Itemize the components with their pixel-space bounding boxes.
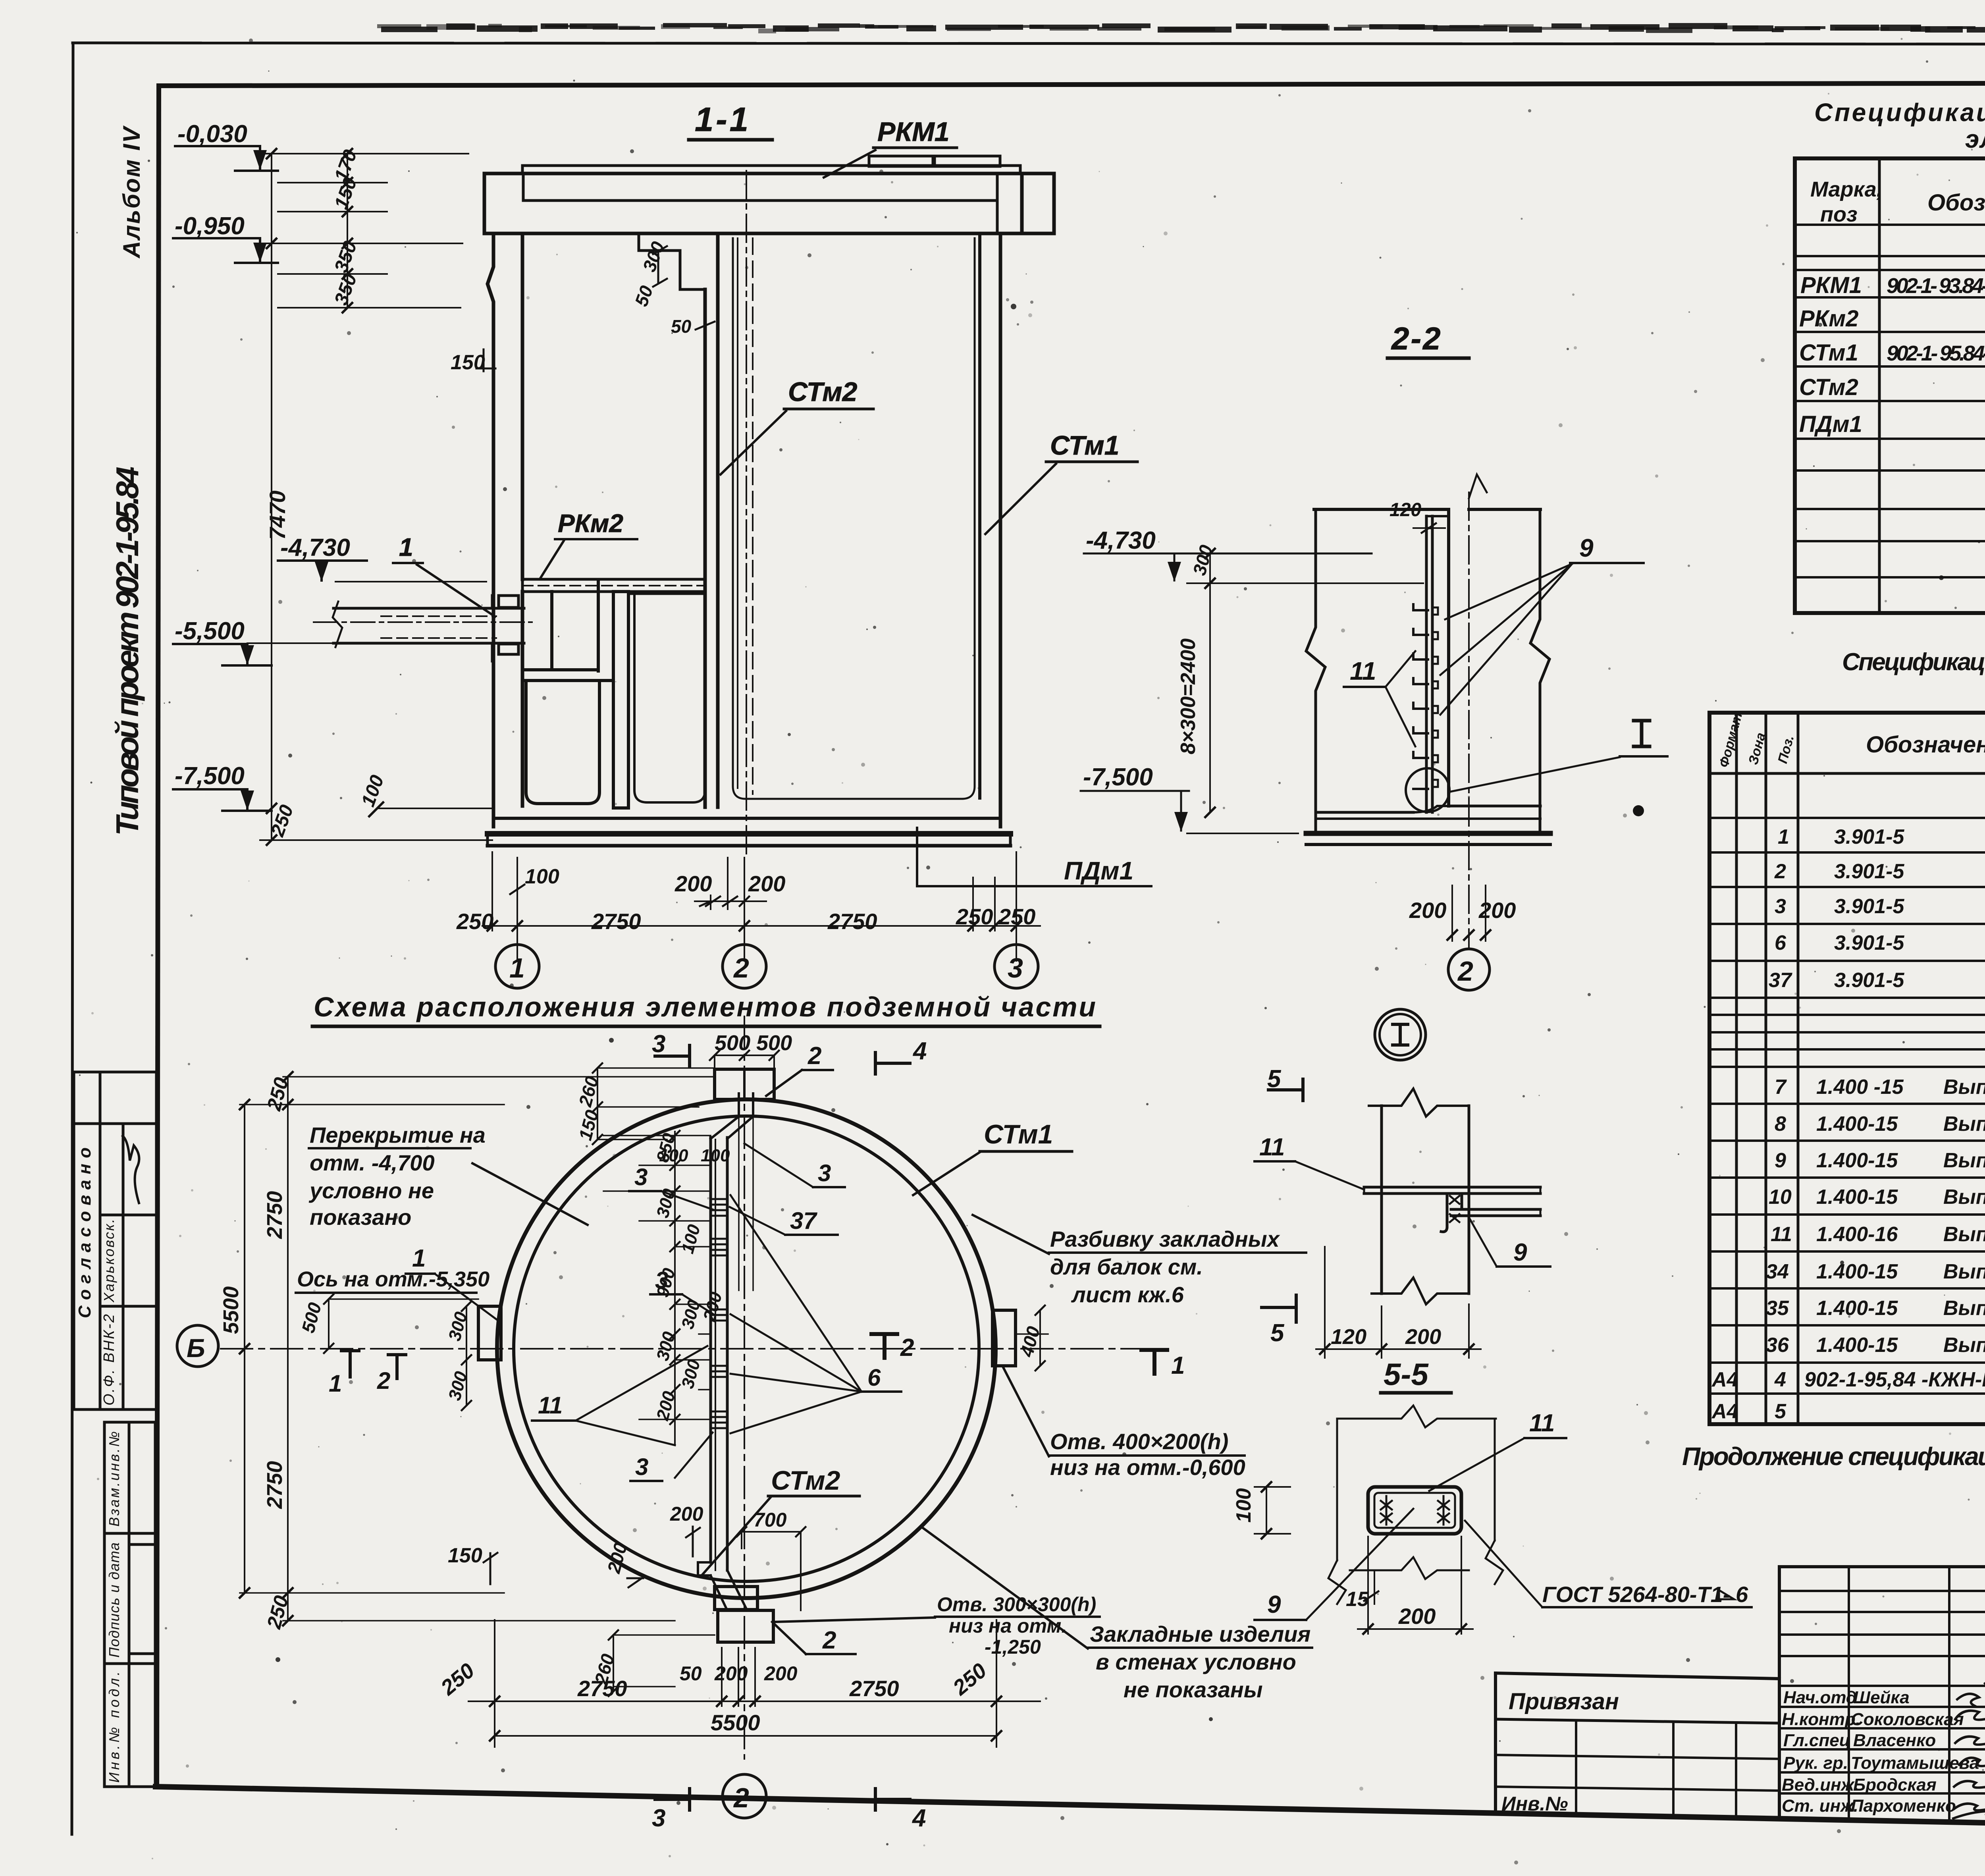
dims 120 200 (det I) bbox=[1324, 1247, 1326, 1358]
svg-text:для балок см.: для балок см. bbox=[1050, 1254, 1203, 1279]
pos label 2 (bottom tongue) bbox=[822, 1627, 836, 1654]
svg-text:200: 200 bbox=[748, 871, 785, 896]
spec1 row lines bbox=[1795, 225, 1985, 577]
pipe flange plates bbox=[499, 596, 518, 607]
upper chamber box verticals bbox=[550, 592, 553, 668]
svg-text:3: 3 bbox=[1775, 895, 1786, 918]
leader СТм1 bbox=[985, 464, 1056, 534]
ext verticals 5-5 bbox=[1336, 1419, 1338, 1560]
right tank inner left liner bbox=[733, 238, 962, 799]
svg-text:200: 200 bbox=[1398, 1604, 1436, 1629]
detail I top break line bbox=[1369, 1089, 1469, 1116]
sump box bbox=[526, 681, 599, 804]
axis bubble 1 bbox=[495, 945, 539, 988]
detail circle at rung bbox=[1406, 768, 1449, 812]
svg-text:Привязан: Привязан bbox=[1509, 1689, 1619, 1714]
svg-text:Закладные изделия: Закладные изделия bbox=[1090, 1621, 1310, 1647]
svg-text:Продолжение спецификации СТм1,: Продолжение спецификации СТм1, СТм2 см. … bbox=[1682, 1442, 1985, 1471]
label 9 (5-5) bbox=[1267, 1591, 1281, 1618]
svg-text:6: 6 bbox=[867, 1364, 881, 1391]
svg-text:Вып.1. 130-29: Вып.1. 130-29 bbox=[1943, 1112, 1985, 1136]
T1 section symbol bbox=[1141, 1350, 1167, 1374]
svg-text:Разбивку закладных: Разбивку закладных bbox=[1050, 1226, 1281, 1251]
dim 2750 right bbox=[827, 909, 877, 934]
chain extension verticals bbox=[491, 852, 493, 931]
svg-text:120: 120 bbox=[1389, 499, 1421, 521]
svg-text:условно не: условно не bbox=[308, 1178, 434, 1203]
svg-text:250: 250 bbox=[456, 909, 493, 934]
bottom section flag 3 bbox=[655, 1798, 690, 1801]
svg-text:1.400-15: 1.400-15 bbox=[1816, 1112, 1898, 1136]
svg-text:5: 5 bbox=[1267, 1065, 1282, 1093]
svg-text:Вып.1 . 120-53: Вып.1 . 120-53 bbox=[1943, 1297, 1985, 1320]
dim 150 lower left bbox=[448, 1544, 482, 1567]
svg-text:Схема расположения элементов: Схема расположения элементов подземной ч… bbox=[314, 991, 1096, 1022]
svg-text:2: 2 bbox=[822, 1627, 836, 1654]
rotated dim 170 bbox=[331, 147, 361, 184]
elevation -7,500 (2-2) bbox=[1083, 764, 1153, 791]
svg-text:Взам.инв.№: Взам.инв.№ bbox=[106, 1431, 122, 1527]
top beam right extension block bbox=[1022, 174, 1054, 233]
pos marker 37 bbox=[790, 1207, 817, 1234]
svg-text:2: 2 bbox=[1457, 956, 1473, 987]
svg-text:1: 1 bbox=[1171, 1352, 1185, 1379]
spec2 heading bbox=[1842, 648, 1985, 676]
label СТм2 (plan) bbox=[771, 1465, 840, 1496]
bottom slab 2-2 bbox=[1316, 811, 1413, 814]
svg-text:1.400-15: 1.400-15 bbox=[1816, 1297, 1898, 1320]
svg-text:Рук. гр.: Рук. гр. bbox=[1783, 1753, 1848, 1773]
leader ПДм1 bbox=[917, 828, 1060, 886]
svg-text:2750: 2750 bbox=[827, 909, 877, 934]
spec1 rows text bbox=[1799, 267, 1985, 437]
svg-text:показано: показано bbox=[310, 1205, 411, 1230]
svg-text:3: 3 bbox=[1008, 952, 1023, 983]
scanner edge streak bbox=[381, 23, 1985, 33]
inner frame top thick bbox=[159, 83, 1985, 86]
svg-text:поз: поз bbox=[1820, 202, 1858, 226]
dim 2750 left bbox=[591, 909, 641, 934]
dim 200 bottom (5-5) bbox=[1461, 1537, 1462, 1634]
svg-text:1.400-15: 1.400-15 bbox=[1816, 1149, 1898, 1172]
svg-text:50: 50 bbox=[680, 1662, 702, 1685]
text Отв 300x300 bbox=[937, 1593, 1096, 1658]
svg-text:100: 100 bbox=[659, 1146, 688, 1165]
leaders 11 bbox=[1386, 651, 1415, 746]
svg-text:Вып.1 . 130-01: Вып.1 . 130-01 bbox=[1943, 1186, 1985, 1209]
text Перекрытие на отм -4700 bbox=[308, 1122, 486, 1230]
right wall inner liner bbox=[962, 238, 975, 799]
label I with serifs bbox=[1634, 721, 1650, 746]
bottom slab band bbox=[493, 817, 1000, 820]
left wall outer bbox=[488, 233, 493, 827]
svg-text:200: 200 bbox=[1409, 898, 1446, 923]
svg-text:-7,500: -7,500 bbox=[175, 762, 245, 790]
svg-text:ПДм1: ПДм1 bbox=[1064, 856, 1133, 885]
svg-text:Обозначение: Обозначение bbox=[1866, 732, 1985, 758]
inner wall circle bbox=[514, 1116, 979, 1581]
dim 700 bbox=[754, 1509, 787, 1531]
leader СТм2 bbox=[721, 411, 786, 474]
leader РКм2 bbox=[540, 541, 564, 579]
svg-text:3: 3 bbox=[818, 1160, 831, 1186]
svg-text:200: 200 bbox=[714, 1662, 748, 1685]
leaders 9 bbox=[1440, 564, 1572, 715]
pipe axis bbox=[314, 621, 532, 623]
svg-text:1.400 -15: 1.400 -15 bbox=[1816, 1076, 1904, 1099]
bottom section flag 4 bbox=[875, 1798, 910, 1801]
svg-text:Вып.1. 120-17: Вып.1. 120-17 bbox=[1943, 1149, 1985, 1172]
ladder rungs bbox=[1413, 604, 1428, 610]
bracket anchor in wall bbox=[1441, 1193, 1462, 1232]
СТм2 wall right face bbox=[716, 233, 720, 807]
svg-text:3.901-5: 3.901-5 bbox=[1834, 969, 1904, 992]
bottom dim chain bbox=[468, 1701, 1040, 1702]
wall top notch bbox=[1426, 516, 1449, 528]
svg-text:9: 9 bbox=[1267, 1591, 1281, 1618]
leader РКМ1 bbox=[824, 150, 875, 177]
svg-text:2750: 2750 bbox=[591, 909, 641, 934]
РКм2 slab left piece bbox=[522, 579, 705, 592]
-5,500 level line bbox=[247, 642, 335, 644]
middle revision rows bbox=[1779, 1591, 1985, 1686]
top beam inner line bbox=[523, 199, 997, 202]
spec1 title line2 bbox=[1965, 125, 1985, 153]
spec1 outer box bbox=[1795, 158, 1985, 613]
plan heading bbox=[314, 991, 1096, 1022]
svg-text:5: 5 bbox=[1270, 1319, 1285, 1347]
top slab line bbox=[1314, 508, 1448, 511]
svg-text:1.400-15: 1.400-15 bbox=[1816, 1260, 1898, 1283]
bottom notch bbox=[715, 1587, 757, 1610]
heading 5-5 bbox=[1384, 1357, 1429, 1392]
small break squiggle above wall bbox=[1469, 474, 1487, 498]
dim 120 top bbox=[1389, 499, 1421, 521]
outer wall circle bbox=[497, 1099, 996, 1598]
middle signatures part outer bbox=[1779, 1565, 1985, 1568]
svg-text:СТм1: СТм1 bbox=[1050, 430, 1119, 461]
svg-text:2: 2 bbox=[733, 952, 749, 983]
svg-text:в стенах условно: в стенах условно bbox=[1096, 1649, 1296, 1674]
svg-text:200: 200 bbox=[670, 1503, 703, 1525]
stray ink dot bbox=[1633, 805, 1644, 816]
section marks 1,2 at left notch bbox=[329, 1370, 342, 1397]
axis 2 vertical centerline through plan bbox=[744, 1016, 745, 1759]
label 11 (det I) bbox=[1259, 1134, 1285, 1161]
rotated dim 350b bbox=[331, 271, 361, 308]
label ПДм1 bbox=[1064, 856, 1133, 885]
svg-text:элементов подземной части: элементов подземной части bbox=[1965, 125, 1985, 153]
section flag 5 upper bbox=[1268, 1088, 1303, 1091]
interior vertical dim chain bbox=[674, 1132, 676, 1445]
svg-text:5500: 5500 bbox=[219, 1286, 243, 1334]
wall bottom end detail bbox=[711, 1093, 753, 1139]
text Ось на отм.-5,350 bbox=[297, 1267, 490, 1291]
svg-text:РКМ1: РКМ1 bbox=[1800, 272, 1862, 298]
svg-text:-7,500: -7,500 bbox=[1083, 764, 1153, 791]
spec2 outer box bbox=[1709, 713, 1985, 1424]
СТм2 wall step top bbox=[639, 233, 705, 289]
dim 200 200 bbox=[675, 871, 712, 896]
svg-text:6: 6 bbox=[1775, 931, 1786, 954]
СТм1 wall inner face bbox=[978, 233, 981, 798]
upper approval stamp box bbox=[74, 1072, 156, 1409]
svg-text:3: 3 bbox=[634, 1164, 648, 1190]
ticks on main line bbox=[267, 149, 276, 845]
svg-text:150: 150 bbox=[448, 1544, 482, 1567]
svg-text:700: 700 bbox=[754, 1509, 787, 1531]
svg-text:200: 200 bbox=[675, 871, 712, 896]
spec2 header texts bbox=[1716, 711, 1985, 810]
top thin slab РКМ1 bbox=[522, 166, 1020, 174]
pos marker 3 (a) bbox=[634, 1164, 648, 1190]
lower margin stamp box bbox=[104, 1422, 155, 1787]
svg-text:200: 200 bbox=[1405, 1325, 1441, 1349]
svg-text:120: 120 bbox=[1331, 1325, 1366, 1349]
total 5500 dim bbox=[495, 1735, 996, 1737]
dim 50 at wall face bbox=[671, 316, 692, 337]
svg-text:низ на отм.-0,600: низ на отм.-0,600 bbox=[1050, 1455, 1245, 1480]
svg-text:лист кж.6: лист кж.6 bbox=[1071, 1282, 1184, 1307]
svg-text:Отв. 400×200(h): Отв. 400×200(h) bbox=[1050, 1429, 1228, 1454]
rotated signature squiggle bbox=[123, 1136, 139, 1203]
construction joint dashed line bbox=[752, 238, 754, 794]
label 9 (det I) bbox=[1513, 1239, 1527, 1266]
svg-text:Вып.1 . -150-17: Вып.1 . -150-17 bbox=[1943, 1334, 1985, 1357]
dim 100 small bbox=[525, 865, 559, 888]
svg-text:А4: А4 bbox=[1711, 1400, 1738, 1423]
svg-text:-1,250: -1,250 bbox=[985, 1636, 1041, 1658]
interior horizontal ext lines bbox=[603, 1136, 711, 1419]
channel (mark 11) outer bbox=[1368, 1487, 1461, 1534]
svg-text:1.400-16: 1.400-16 bbox=[1816, 1223, 1898, 1246]
svg-text:Ст. инж.: Ст. инж. bbox=[1782, 1796, 1858, 1816]
pipe break mark bbox=[333, 602, 342, 647]
svg-text:Спецификация СТм1, СТм2 (начал: Спецификация СТм1, СТм2 (начало) bbox=[1842, 648, 1985, 676]
chain ticks bbox=[488, 921, 1021, 931]
main vertical dim line 7470 bbox=[271, 154, 272, 840]
dims 260 150 upper left chain bbox=[597, 1068, 598, 1139]
signature texts bbox=[1782, 1688, 1979, 1816]
top section flag 3 bbox=[655, 1055, 690, 1058]
svg-text:3.901-5: 3.901-5 bbox=[1834, 825, 1904, 848]
spec2 data rows bbox=[1711, 825, 1985, 1425]
outer thin border left bbox=[72, 43, 73, 1834]
pos marker 3 (top) bbox=[818, 1160, 831, 1186]
T2 section symbol bbox=[871, 1334, 897, 1358]
svg-text:-0,030: -0,030 bbox=[177, 120, 247, 148]
rotated dim 7470 bbox=[265, 490, 290, 540]
section flag 5 lower bbox=[1262, 1306, 1296, 1309]
svg-text:А4: А4 bbox=[1711, 1368, 1738, 1391]
inner frame bottom thick bbox=[156, 1787, 1985, 1835]
chain horizontal ext lines bbox=[240, 1104, 504, 1105]
svg-text:Вып.1. 120-47: Вып.1. 120-47 bbox=[1943, 1076, 1985, 1099]
elevation -4,730 (2-2) bbox=[1086, 527, 1156, 554]
svg-text:902-1- 95.84-КЖ лист 6: 902-1- 95.84-КЖ лист 6 bbox=[1887, 341, 1985, 365]
step slab line bbox=[522, 679, 613, 682]
dims 100 100 inside top bbox=[659, 1146, 688, 1165]
label 11 (5-5) bbox=[1529, 1409, 1555, 1437]
text Закладные изделия bbox=[1090, 1621, 1310, 1702]
text Отв 400x200 bbox=[1050, 1429, 1245, 1480]
small slab piece 1 on top bbox=[869, 156, 933, 166]
small slab piece 2 on top bbox=[935, 156, 1000, 166]
upper inner dims 300/50 bbox=[639, 239, 669, 274]
right small chamber liner bbox=[634, 594, 705, 802]
right edge with break bbox=[1530, 509, 1549, 834]
label 11 (2-2) bbox=[1350, 657, 1376, 685]
channel anchors bbox=[1381, 1496, 1392, 1525]
svg-text:37: 37 bbox=[790, 1207, 817, 1234]
rotated dim 350 bbox=[331, 238, 361, 276]
pipe through left wall bbox=[333, 607, 524, 610]
svg-text:11: 11 bbox=[1259, 1134, 1285, 1161]
svg-text:Нач.отд: Нач.отд bbox=[1783, 1688, 1857, 1707]
bottom break line 5-5 bbox=[1350, 1557, 1469, 1579]
svg-text:34: 34 bbox=[1766, 1260, 1789, 1283]
svg-text:Марка,: Марка, bbox=[1810, 177, 1883, 201]
detail I bottom break line bbox=[1372, 1278, 1469, 1304]
svg-text:2-2: 2-2 bbox=[1391, 321, 1442, 356]
svg-text:Ось на отм.-5,350: Ось на отм.-5,350 bbox=[297, 1267, 490, 1291]
strike on 902-1-93 bbox=[1887, 296, 1985, 298]
svg-text:1: 1 bbox=[509, 952, 525, 983]
svg-text:Инв.№: Инв.№ bbox=[1501, 1793, 1568, 1815]
СТм2 wall left face bbox=[703, 289, 707, 807]
svg-text:4: 4 bbox=[912, 1805, 926, 1832]
wall right face bbox=[1447, 509, 1450, 806]
svg-text:7470: 7470 bbox=[265, 490, 290, 540]
svg-text:6: 6 bbox=[1736, 1582, 1748, 1607]
dim 300 rotated bbox=[1189, 543, 1216, 578]
elevation -0,030 bbox=[177, 120, 247, 148]
svg-text:250: 250 bbox=[956, 904, 993, 929]
elevation -0,950 bbox=[175, 212, 245, 240]
svg-text:902-1- 93.84-КЖ лист 11: 902-1- 93.84-КЖ лист 11 bbox=[1887, 274, 1985, 298]
left part: Привязан box bbox=[1495, 1673, 1779, 1679]
dim 250 left bbox=[456, 909, 493, 934]
pos label 1 (plan) bbox=[412, 1245, 426, 1272]
svg-text:1-1: 1-1 bbox=[695, 101, 751, 139]
svg-text:500: 500 bbox=[756, 1031, 792, 1055]
spec1 title line1 bbox=[1814, 98, 1985, 127]
svg-text:Б: Б bbox=[187, 1333, 205, 1363]
spec1 header texts bbox=[1810, 177, 1985, 226]
svg-text:100: 100 bbox=[1232, 1488, 1255, 1523]
axis bubble Б bbox=[177, 1325, 218, 1367]
svg-text:7: 7 bbox=[1775, 1076, 1787, 1099]
svg-text:О.Ф. ВНК-2: О.Ф. ВНК-2 bbox=[101, 1314, 118, 1406]
svg-text:5500: 5500 bbox=[711, 1710, 760, 1735]
dim 200 СТм2 area bbox=[670, 1503, 703, 1525]
svg-text:Пархоменко: Пархоменко bbox=[1851, 1796, 1956, 1816]
svg-text:11: 11 bbox=[538, 1392, 563, 1419]
central wall in plan: west face bbox=[709, 1138, 712, 1562]
svg-text:9: 9 bbox=[1579, 534, 1594, 562]
svg-text:150: 150 bbox=[451, 351, 485, 374]
signature squiggles bbox=[1957, 1666, 1985, 1706]
dim 400 right notch bbox=[1016, 1333, 1048, 1335]
label 9 (2-2) bbox=[1579, 534, 1594, 562]
svg-text:2: 2 bbox=[377, 1367, 390, 1394]
svg-text:8×300=2400: 8×300=2400 bbox=[1177, 638, 1200, 754]
svg-text:3: 3 bbox=[635, 1454, 648, 1480]
svg-text:СТм2: СТм2 bbox=[788, 377, 858, 407]
svg-text:ПДм1: ПДм1 bbox=[1799, 411, 1862, 437]
spec2 row lines bbox=[1709, 818, 1985, 1394]
svg-text:1: 1 bbox=[329, 1370, 342, 1397]
leader I bbox=[1448, 757, 1620, 792]
svg-text:4: 4 bbox=[1774, 1368, 1786, 1391]
dim 250 rotated bbox=[267, 802, 298, 840]
elevation -4,730 bbox=[280, 534, 350, 561]
svg-text:Н.контр.: Н.контр. bbox=[1782, 1710, 1860, 1729]
pos marker 11 bbox=[538, 1392, 563, 1419]
svg-text:3.901-5: 3.901-5 bbox=[1834, 895, 1904, 918]
svg-text:36: 36 bbox=[1766, 1334, 1789, 1357]
svg-text:11: 11 bbox=[1350, 657, 1376, 685]
svg-text:9: 9 bbox=[1775, 1149, 1786, 1172]
svg-text:Вед.инж.: Вед.инж. bbox=[1782, 1775, 1859, 1795]
opening extension lines bbox=[738, 1116, 740, 1290]
svg-text:2: 2 bbox=[733, 1782, 749, 1813]
detail I wall verticals bbox=[1380, 1106, 1383, 1294]
svg-text:250: 250 bbox=[998, 904, 1035, 929]
left notch bbox=[478, 1306, 501, 1360]
label СТм1 (plan) bbox=[984, 1119, 1053, 1149]
axis bubble 2 bbox=[723, 945, 766, 988]
svg-text:4: 4 bbox=[912, 1037, 927, 1065]
axis bubble 2 (2-2) bbox=[1448, 949, 1490, 990]
svg-text:50: 50 bbox=[671, 316, 692, 337]
rung anchor plates on wall bbox=[1432, 607, 1438, 787]
svg-text:не показаны: не показаны bbox=[1124, 1677, 1263, 1702]
central wall in plan: east face bbox=[726, 1138, 729, 1570]
middle verticals bbox=[1849, 1567, 1985, 1822]
dim 250 250 right bbox=[956, 904, 993, 929]
svg-text:низ на отм.: низ на отм. bbox=[949, 1615, 1067, 1637]
axis centerline 2 bbox=[1468, 492, 1470, 949]
top beam inner verticals bbox=[522, 174, 525, 201]
bracket lower plate bbox=[1451, 1208, 1540, 1211]
svg-text:РКм2: РКм2 bbox=[558, 509, 623, 538]
top beam bbox=[484, 174, 1022, 233]
pos marker 3 (b) bbox=[655, 1267, 668, 1294]
svg-text:-5,500: -5,500 bbox=[175, 617, 245, 645]
svg-text:Согласовано: Согласовано bbox=[75, 1147, 94, 1318]
leader Отв 300x300 to bottom notch bbox=[774, 1618, 935, 1622]
svg-text:Отв. 300×300(h): Отв. 300×300(h) bbox=[937, 1593, 1096, 1616]
svg-text:100: 100 bbox=[701, 1146, 730, 1165]
dim 500 500 top bbox=[715, 1031, 750, 1055]
left small dims 500 300 300 bbox=[297, 1300, 471, 1403]
svg-text:1: 1 bbox=[399, 533, 413, 561]
svg-text:5-5: 5-5 bbox=[1384, 1357, 1429, 1392]
chamber H-wall bbox=[613, 592, 628, 808]
svg-text:-0,950: -0,950 bbox=[175, 212, 245, 240]
svg-text:100: 100 bbox=[525, 865, 559, 888]
svg-text:11: 11 bbox=[1771, 1223, 1792, 1246]
svg-text:-4,730: -4,730 bbox=[280, 534, 350, 561]
wall inner pair bbox=[1425, 516, 1428, 812]
axis Б horizontal centerline bbox=[221, 1348, 1163, 1350]
svg-text:-4,730: -4,730 bbox=[1086, 527, 1156, 554]
leader 2 top bbox=[807, 1042, 821, 1070]
svg-text:10: 10 bbox=[1769, 1186, 1792, 1209]
bottom dim chain line bbox=[482, 925, 1040, 927]
ГОСТ 5264-80-Т1-размер 6 bbox=[1542, 1582, 1730, 1607]
